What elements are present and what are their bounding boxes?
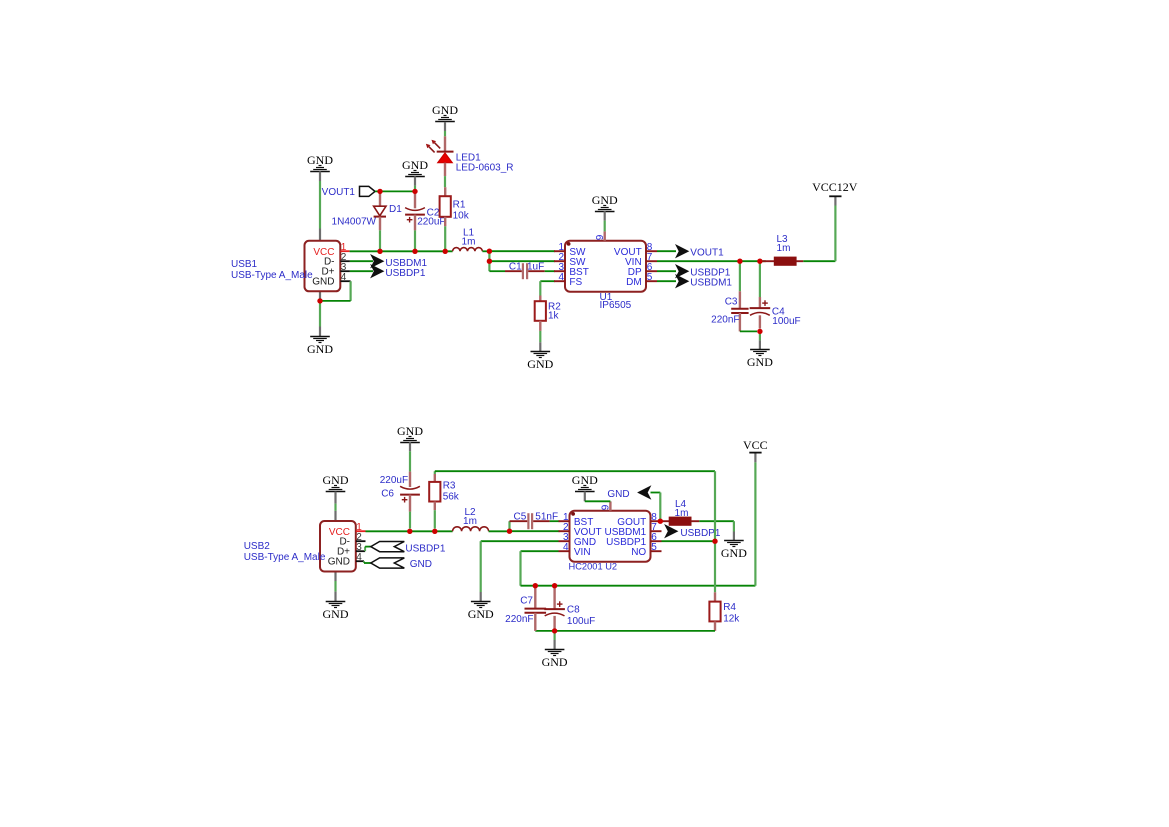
wire — [334, 581, 336, 592]
wire — [409, 451, 411, 471]
junction — [377, 249, 382, 254]
svg-text:GND: GND — [323, 473, 349, 487]
svg-text:USB-Type A_Male: USB-Type A_Male — [244, 552, 326, 563]
wire — [714, 541, 716, 592]
inductor L2 — [453, 507, 489, 532]
svg-text:USB1: USB1 — [231, 259, 258, 270]
svg-text:NO: NO — [631, 547, 646, 558]
svg-text:GND: GND — [721, 546, 747, 560]
wire — [510, 530, 560, 532]
wire — [334, 504, 336, 511]
svg-text:IP6505: IP6505 — [600, 300, 632, 311]
diode D1 — [332, 191, 403, 230]
svg-text:9: 9 — [601, 504, 612, 510]
net port VOUT1 — [322, 186, 375, 198]
wire — [435, 471, 715, 541]
wire — [489, 261, 505, 271]
junction — [552, 583, 557, 588]
capacitor C2 — [405, 194, 445, 230]
wire — [585, 500, 611, 502]
net flag USBDP1 — [675, 264, 731, 279]
LED LED1 — [426, 136, 514, 176]
svg-text:220nF: 220nF — [505, 614, 533, 625]
USB connector USB2 — [244, 511, 366, 581]
svg-text:C3: C3 — [725, 297, 738, 308]
wire — [521, 551, 756, 586]
IC U2 — [559, 501, 662, 571]
svg-text:1k: 1k — [548, 311, 560, 322]
wire — [651, 493, 661, 522]
junction — [412, 189, 417, 194]
wire — [350, 270, 373, 272]
net flag VOUT1 — [675, 244, 724, 259]
wire — [545, 270, 555, 272]
ground — [402, 158, 428, 186]
ground — [721, 532, 747, 561]
svg-text:USBDP1: USBDP1 — [405, 544, 445, 555]
ground — [397, 424, 423, 451]
ground — [572, 473, 598, 501]
svg-text:C7: C7 — [520, 596, 533, 607]
svg-text:5: 5 — [647, 272, 653, 283]
wire — [699, 521, 734, 531]
svg-text:DM: DM — [626, 277, 642, 288]
svg-text:4: 4 — [558, 272, 564, 283]
junction — [757, 259, 762, 264]
svg-text:GND: GND — [307, 153, 333, 167]
svg-text:FS: FS — [569, 277, 582, 288]
svg-text:GND: GND — [432, 103, 458, 117]
ground — [432, 103, 458, 131]
ground — [468, 592, 494, 621]
svg-text:GND: GND — [572, 473, 598, 487]
svg-text:GND: GND — [542, 655, 568, 669]
wire — [657, 280, 676, 282]
wire — [409, 512, 411, 529]
junction — [487, 249, 492, 254]
svg-text:1N4007W: 1N4007W — [332, 216, 377, 227]
wire — [657, 270, 676, 272]
svg-text:VIN: VIN — [574, 547, 591, 558]
wire — [481, 541, 559, 592]
svg-text:GND: GND — [747, 355, 773, 369]
ground — [747, 340, 773, 369]
wire — [540, 281, 555, 295]
svg-text:R4: R4 — [723, 602, 736, 613]
capacitor C6 — [380, 472, 420, 512]
svg-text:VCC: VCC — [743, 438, 768, 452]
wire — [482, 250, 489, 252]
wire — [366, 530, 453, 532]
svg-text:C1: C1 — [509, 261, 522, 272]
resistor R3 — [429, 471, 460, 510]
wire — [414, 230, 416, 249]
svg-text:VCC12V: VCC12V — [812, 180, 858, 194]
junction — [407, 529, 412, 534]
svg-text:R3: R3 — [443, 481, 456, 492]
wire — [489, 250, 555, 252]
svg-text:GND: GND — [527, 357, 553, 371]
USB connector USB1 — [231, 229, 351, 301]
wire — [662, 540, 716, 542]
svg-text:100uF: 100uF — [772, 316, 800, 327]
svg-text:GND: GND — [328, 557, 350, 568]
svg-text:USBDM1: USBDM1 — [690, 278, 732, 289]
svg-text:D1: D1 — [389, 204, 402, 215]
junction — [552, 628, 557, 633]
wire — [319, 181, 321, 229]
wire — [508, 521, 510, 531]
ground — [323, 592, 349, 622]
net port GND — [364, 558, 432, 570]
svg-text:GND: GND — [410, 559, 432, 570]
svg-text:9: 9 — [595, 234, 606, 240]
junction — [412, 249, 417, 254]
svg-text:GND: GND — [312, 277, 334, 288]
net flag GND — [607, 485, 651, 500]
svg-text:12k: 12k — [723, 614, 740, 625]
wire — [414, 186, 416, 189]
svg-text:10k: 10k — [453, 211, 470, 222]
junction — [757, 329, 762, 334]
power VCC — [743, 438, 768, 462]
junction — [507, 529, 512, 534]
junction — [737, 259, 742, 264]
svg-text:VOUT1: VOUT1 — [322, 187, 356, 198]
ground — [542, 640, 568, 669]
svg-text:1m: 1m — [463, 516, 477, 527]
wire — [375, 190, 415, 192]
wire — [740, 330, 757, 332]
wire — [444, 131, 446, 136]
capacitor C8 — [544, 586, 595, 631]
junction — [317, 298, 322, 303]
junction — [712, 539, 717, 544]
wire — [489, 260, 555, 262]
wire — [535, 630, 715, 632]
ground — [307, 153, 333, 181]
inductor L3 — [763, 234, 804, 265]
wire — [379, 230, 381, 249]
capacitor C7 — [505, 586, 546, 631]
junction — [658, 519, 663, 524]
svg-text:1m: 1m — [675, 508, 689, 519]
wire — [803, 206, 835, 262]
svg-text:1m: 1m — [777, 243, 791, 254]
svg-text:GND: GND — [592, 193, 618, 207]
wire — [657, 260, 766, 262]
svg-text:GND: GND — [402, 158, 428, 172]
svg-text:56k: 56k — [443, 492, 460, 503]
svg-text:220nF: 220nF — [711, 315, 739, 326]
net port USBDP1 — [365, 542, 446, 555]
power VCC12V — [812, 180, 858, 205]
svg-text:USBDP1: USBDP1 — [385, 268, 425, 279]
wire — [604, 221, 606, 232]
capacitor C3 — [711, 291, 748, 331]
svg-text:C5: C5 — [514, 512, 527, 523]
ground — [307, 327, 333, 357]
wire — [320, 281, 351, 301]
capacitor C5 — [510, 512, 559, 530]
svg-text:220uF: 220uF — [417, 217, 445, 228]
svg-text:5: 5 — [651, 542, 657, 553]
svg-text:100uF: 100uF — [567, 616, 595, 627]
svg-text:4: 4 — [563, 542, 569, 553]
ground — [527, 342, 553, 371]
wire — [550, 520, 560, 522]
net flag USBDM1 — [370, 254, 427, 269]
svg-text:1uF: 1uF — [527, 261, 544, 272]
svg-text:USB-Type A_Male: USB-Type A_Male — [231, 270, 313, 281]
wire — [553, 631, 555, 640]
wire — [759, 261, 761, 297]
svg-text:220uF: 220uF — [380, 475, 408, 486]
svg-text:C6: C6 — [381, 489, 394, 500]
svg-text:1m: 1m — [462, 237, 476, 248]
svg-text:R1: R1 — [453, 200, 466, 211]
wire — [350, 250, 453, 252]
resistor R2 — [535, 296, 562, 331]
svg-text:GND: GND — [397, 424, 423, 438]
wire — [434, 510, 436, 528]
wire — [350, 260, 373, 262]
svg-text:4: 4 — [341, 272, 347, 283]
junction — [487, 259, 492, 264]
junction — [432, 529, 437, 534]
net flag USBDP1 — [370, 264, 426, 279]
wire — [444, 226, 446, 249]
IC U1 — [554, 231, 657, 311]
svg-text:HC2001 U2: HC2001 U2 — [569, 562, 618, 572]
capacitor C4 — [750, 297, 801, 329]
net flag USBDP1 — [664, 524, 721, 539]
ground — [592, 193, 618, 221]
svg-text:GND: GND — [468, 607, 494, 621]
capacitor C1 — [505, 261, 545, 279]
wire — [444, 176, 446, 187]
wire — [754, 462, 756, 585]
inductor L1 — [453, 228, 483, 252]
svg-text:VOUT1: VOUT1 — [690, 248, 724, 259]
wire — [739, 261, 741, 291]
ground — [323, 473, 349, 504]
svg-text:C8: C8 — [567, 605, 580, 616]
svg-text:GND: GND — [607, 489, 629, 500]
junction — [533, 583, 538, 588]
net flag USBDM1 — [675, 274, 732, 289]
wire — [488, 251, 490, 261]
svg-text:GND: GND — [323, 607, 349, 621]
junction — [377, 189, 382, 194]
wire — [539, 331, 541, 342]
resistor R1 — [440, 187, 470, 226]
svg-text:USB2: USB2 — [244, 541, 271, 552]
wire — [759, 331, 761, 340]
inductor L4 — [660, 499, 699, 525]
svg-text:4: 4 — [356, 552, 362, 563]
wire — [489, 530, 510, 532]
junction — [443, 249, 448, 254]
wire — [319, 301, 321, 327]
wire — [657, 250, 676, 252]
resistor R4 — [709, 592, 740, 631]
svg-text:LED-0603_R: LED-0603_R — [456, 162, 514, 173]
svg-text:GND: GND — [307, 342, 333, 356]
